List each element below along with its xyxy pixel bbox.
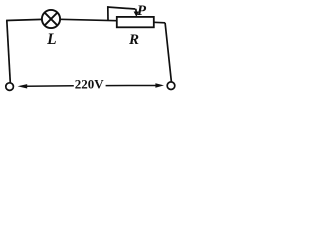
wire: bypass vertical up at junction	[107, 6, 109, 20]
resistor R body (rheostat box)	[117, 17, 154, 27]
right terminal	[167, 82, 175, 90]
wire: top left to lamp	[6, 19, 42, 20]
wire: bypass top horizontal to wiper	[107, 7, 135, 9]
wire: resistor to right corner	[154, 21, 165, 24]
wire: right vertical side	[165, 23, 171, 82]
left terminal	[6, 83, 14, 91]
svg-text:L: L	[46, 31, 56, 48]
svg-text:R: R	[128, 32, 139, 48]
svg-text:220V: 220V	[75, 77, 105, 92]
wire: left vertical side	[7, 20, 11, 83]
wire: lamp to rheostat	[60, 19, 117, 20]
dimension arrow pointing left at left terminal	[18, 84, 74, 88]
lamp L (circle with cross)	[42, 10, 60, 28]
wiper arrow P (slider onto resistor)	[134, 9, 139, 17]
dimension arrow pointing right at right terminal	[106, 83, 164, 88]
